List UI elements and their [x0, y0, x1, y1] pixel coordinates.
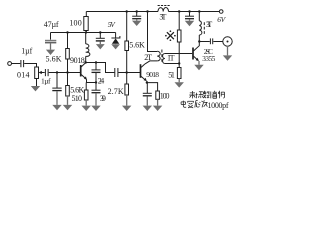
- resistor R2 5.6K upper divider: [67, 33, 69, 49]
- wire base Q1: [49, 72, 81, 74]
- char rong: [188, 101, 194, 108]
- char wei: [202, 100, 208, 107]
- capacitor C4 1uF coupling: [44, 69, 46, 76]
- terminal input jack: [8, 62, 12, 66]
- node 5V rail junctions: [66, 31, 68, 33]
- wire input: [12, 63, 21, 65]
- capacitor C11 1000p rail filter: [188, 10, 190, 12]
- transistor Q3 2SC3355: [192, 48, 194, 60]
- transformer T1 2T primary: [157, 51, 160, 61]
- svg-text:1T: 1T: [167, 54, 175, 63]
- resistor R1 100 (decoupling): [85, 12, 87, 17]
- svg-text:6V: 6V: [217, 15, 226, 24]
- svg-text:9018: 9018: [146, 70, 159, 79]
- node emitter Q2: [146, 81, 148, 83]
- resistor R4 510 emitter Q1: [85, 83, 87, 91]
- wire 5V rail: [51, 32, 116, 34]
- capacitor C10 emitter bypass Q2: [146, 83, 148, 94]
- svg-text:3T: 3T: [159, 13, 166, 22]
- svg-text:47µf: 47µf: [44, 20, 59, 29]
- transformer T1 1T secondary: [163, 54, 165, 64]
- inductor L2 choke collector Q1: [85, 33, 87, 44]
- node rail R5: [126, 10, 128, 12]
- transformer core: [161, 50, 163, 62]
- char zhi: [211, 91, 217, 99]
- ground (47uF): [46, 43, 55, 55]
- ground (R3): [63, 96, 72, 110]
- terminal RF output jack: [223, 37, 232, 46]
- svg-text:3355: 3355: [202, 55, 215, 63]
- svg-text:1µf: 1µf: [41, 77, 51, 86]
- node collector Q3: [198, 40, 200, 42]
- wire top 6V rail: [86, 11, 158, 13]
- resistor R8 (selected, marked with reference mark): [178, 10, 180, 12]
- char dian: [181, 101, 186, 108]
- capacitor C5 1000p base bypass: [56, 73, 58, 88]
- terminal 6V supply: [219, 10, 223, 14]
- svg-text:100: 100: [160, 92, 170, 101]
- resistor R5 5.6K osc bias: [126, 12, 128, 42]
- svg-text:1µf: 1µf: [21, 47, 32, 56]
- svg-text:24: 24: [98, 77, 105, 86]
- svg-text:2.7K: 2.7K: [108, 87, 124, 96]
- reference mark (R8 selected value): [165, 30, 176, 41]
- node base Q2: [126, 71, 128, 73]
- char shu: [203, 91, 209, 98]
- inductor L3 3T collector Q3: [198, 10, 200, 12]
- ground (emitter Q3): [194, 61, 203, 70]
- char jun: [195, 101, 201, 108]
- resistor R9 51: [178, 64, 180, 68]
- wire rail to 2T top: [146, 10, 148, 12]
- node C6 tap: [95, 61, 97, 63]
- wire 1T bottom: [165, 63, 179, 65]
- capacitor C2 1000p (5V rail bypass): [99, 33, 101, 39]
- svg-text:100: 100: [69, 18, 81, 27]
- inductor L1 3T (choke in 6V rail): [158, 8, 169, 12]
- char biao: [196, 92, 203, 98]
- zener diode D1 5V: [115, 33, 117, 39]
- wire emitter Q1 node: [87, 82, 97, 84]
- svg-text:1000pf: 1000pf: [208, 101, 229, 110]
- wire emitter Q2 to R7: [147, 83, 158, 91]
- wire to base Q2: [118, 72, 140, 74]
- node divider tap: [66, 71, 68, 73]
- svg-text:014: 014: [17, 70, 30, 79]
- resistor R3 5.6K lower divider: [67, 73, 69, 86]
- wire to pot: [24, 64, 36, 68]
- ground (zener): [111, 44, 120, 50]
- node collector Q1: [85, 61, 87, 63]
- capacitor C7 interstage coupling: [114, 68, 116, 77]
- svg-text:5.6K: 5.6K: [46, 54, 62, 63]
- resistor R6 2.7K base Q2 to ground: [126, 73, 128, 85]
- wire collector to C7: [86, 63, 115, 73]
- capacitor C3 1uF/014 input coupling: [20, 60, 22, 67]
- svg-text:510: 510: [72, 94, 83, 103]
- svg-text:2T: 2T: [144, 53, 152, 62]
- transistor Q1 9018: [80, 65, 82, 77]
- capacitor C1 47uF: [50, 33, 52, 40]
- char wei (line1): [189, 91, 195, 98]
- resistor R7 100 emitter Q2: [156, 91, 160, 99]
- ground (pot): [31, 86, 40, 91]
- svg-text:39: 39: [100, 94, 106, 103]
- wiper arrow: [41, 72, 45, 74]
- ground (C2): [96, 42, 105, 50]
- capacitor C12 output coupling: [199, 41, 210, 43]
- svg-text:5.6K: 5.6K: [129, 41, 145, 50]
- capacitor C8 39 emitter bypass: [95, 83, 97, 91]
- svg-text:5V: 5V: [108, 20, 116, 29]
- note: unmarked capacitors are 1000pf (Chinese, drawn as strokes): [189, 91, 224, 99]
- transistor Q2 9018 oscillator: [140, 64, 142, 78]
- wire 1T to base Q3: [165, 53, 192, 55]
- ground (jack): [223, 46, 232, 61]
- capacitor C6 24 (collector-emitter): [95, 63, 97, 70]
- node base bypass: [56, 71, 58, 73]
- svg-text:9018: 9018: [70, 56, 85, 65]
- char de: [218, 91, 224, 99]
- svg-text:3T: 3T: [206, 20, 213, 29]
- svg-text:51: 51: [168, 70, 175, 79]
- potentiometer RP 014: [35, 67, 39, 79]
- capacitor C9 1000p rail bypass: [136, 10, 138, 12]
